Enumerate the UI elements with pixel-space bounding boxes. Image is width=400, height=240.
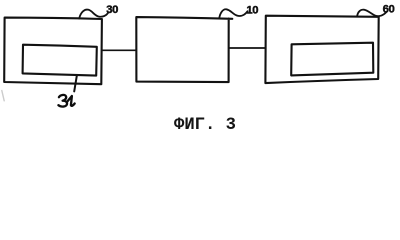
block 10 box [136, 17, 232, 82]
svg-text:10: 10 [246, 5, 258, 17]
svg-text:60: 60 [383, 3, 395, 15]
label 31 [58, 95, 74, 107]
leader 31 [74, 76, 77, 92]
block 60 outer box [265, 16, 378, 83]
leader 10 [219, 9, 247, 18]
block 30 outer box [4, 18, 102, 85]
leader 60 [357, 10, 386, 16]
scan smudge bottom-left [2, 91, 4, 101]
block 60 inner box [291, 43, 373, 76]
svg-text:30: 30 [106, 4, 118, 16]
leader 30 [79, 10, 108, 19]
wire left-to-middle [102, 49, 136, 51]
svg-text:ФИГ. 3: ФИГ. 3 [174, 116, 236, 134]
block 31 inner box [23, 45, 97, 76]
wire middle-to-right [229, 47, 266, 49]
